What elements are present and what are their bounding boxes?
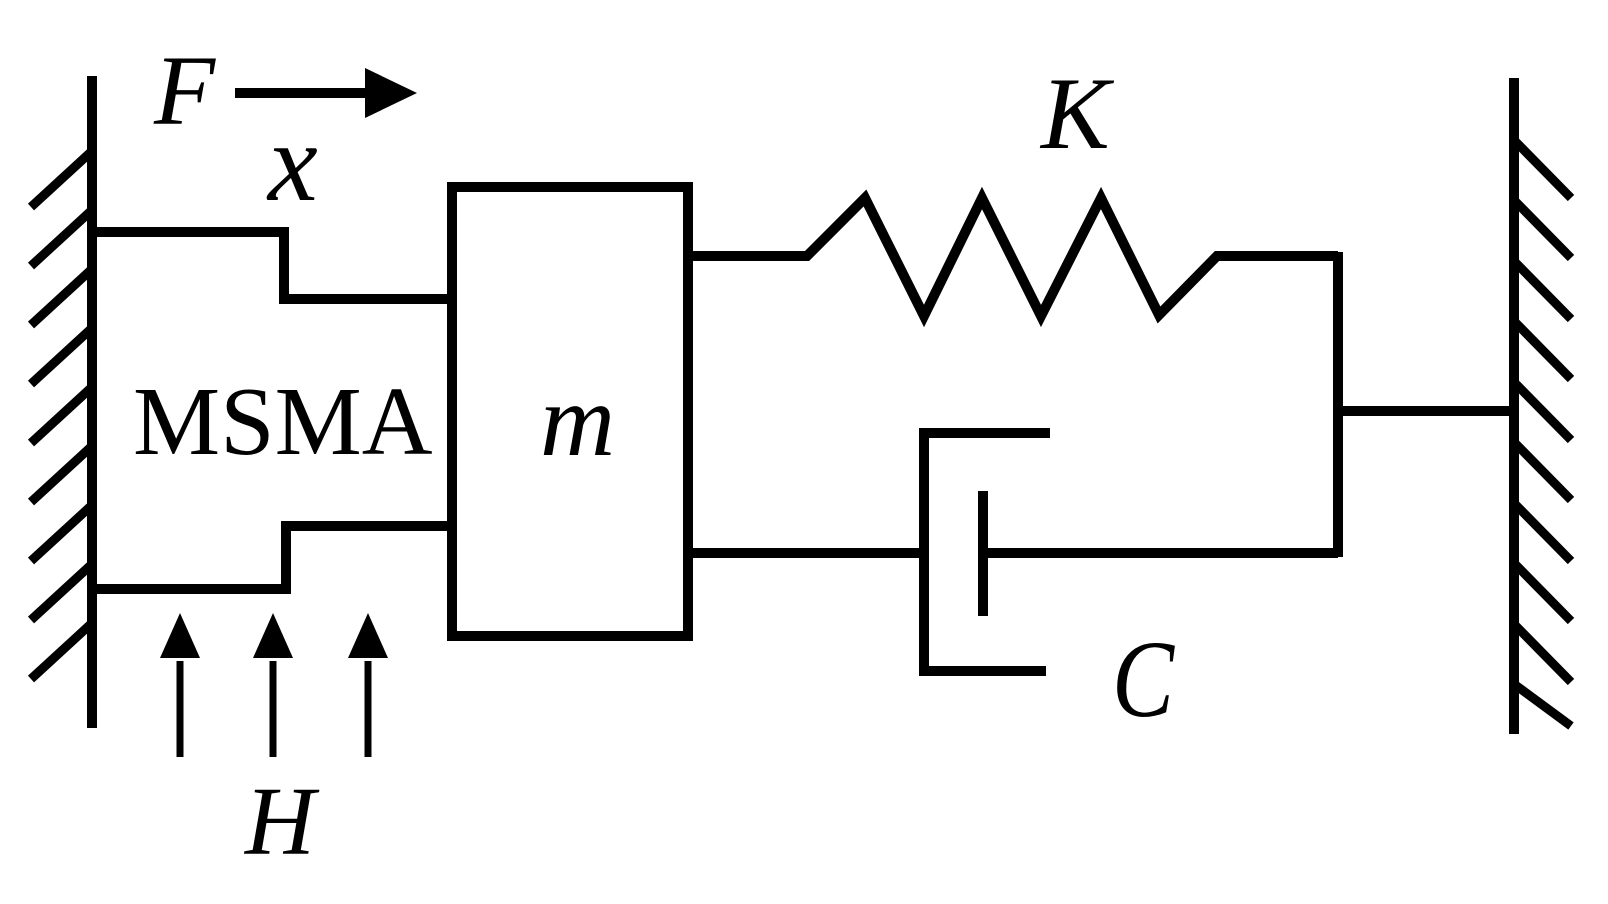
H field arrow 1 head — [160, 613, 200, 658]
force arrow F head — [365, 68, 417, 118]
damper C cylinder top wall — [919, 428, 1050, 438]
wire: mass to damper cylinder — [688, 548, 924, 558]
damper C piston rod — [983, 548, 1338, 558]
H field arrow 2 head — [253, 613, 293, 658]
H field arrow 2 shaft — [270, 661, 277, 757]
left wall hatching — [31, 151, 92, 679]
H field arrow 1 shaft — [177, 661, 184, 757]
left wall — [87, 76, 97, 728]
mass block m — [452, 187, 688, 636]
svg-text:x: x — [266, 101, 318, 225]
force arrow F shaft — [235, 88, 372, 98]
damper C piston plate — [978, 491, 988, 616]
svg-text:H: H — [243, 768, 320, 875]
right wall — [1509, 78, 1519, 734]
right wall hatching — [1514, 140, 1571, 726]
svg-text:F: F — [153, 35, 216, 146]
svg-text:MSMA: MSMA — [133, 368, 433, 476]
MSMA actuator outline lower edge (stepped wire) — [92, 526, 452, 589]
damper C cylinder back wall — [919, 433, 929, 673]
svg-text:m: m — [540, 363, 615, 478]
MSMA actuator outline upper edge (stepped wire) — [92, 232, 452, 299]
H field arrow 3 shaft — [365, 661, 372, 757]
svg-text:C: C — [1112, 618, 1175, 740]
wire: damper/spring junction to right wall — [1334, 406, 1514, 416]
spring K (zigzag) — [688, 198, 1338, 316]
svg-text:K: K — [1039, 57, 1115, 171]
H field arrow 3 head — [348, 613, 388, 658]
wire: right vertical bar joining spring and damper — [1333, 252, 1343, 557]
damper C cylinder bottom wall — [919, 666, 1046, 676]
